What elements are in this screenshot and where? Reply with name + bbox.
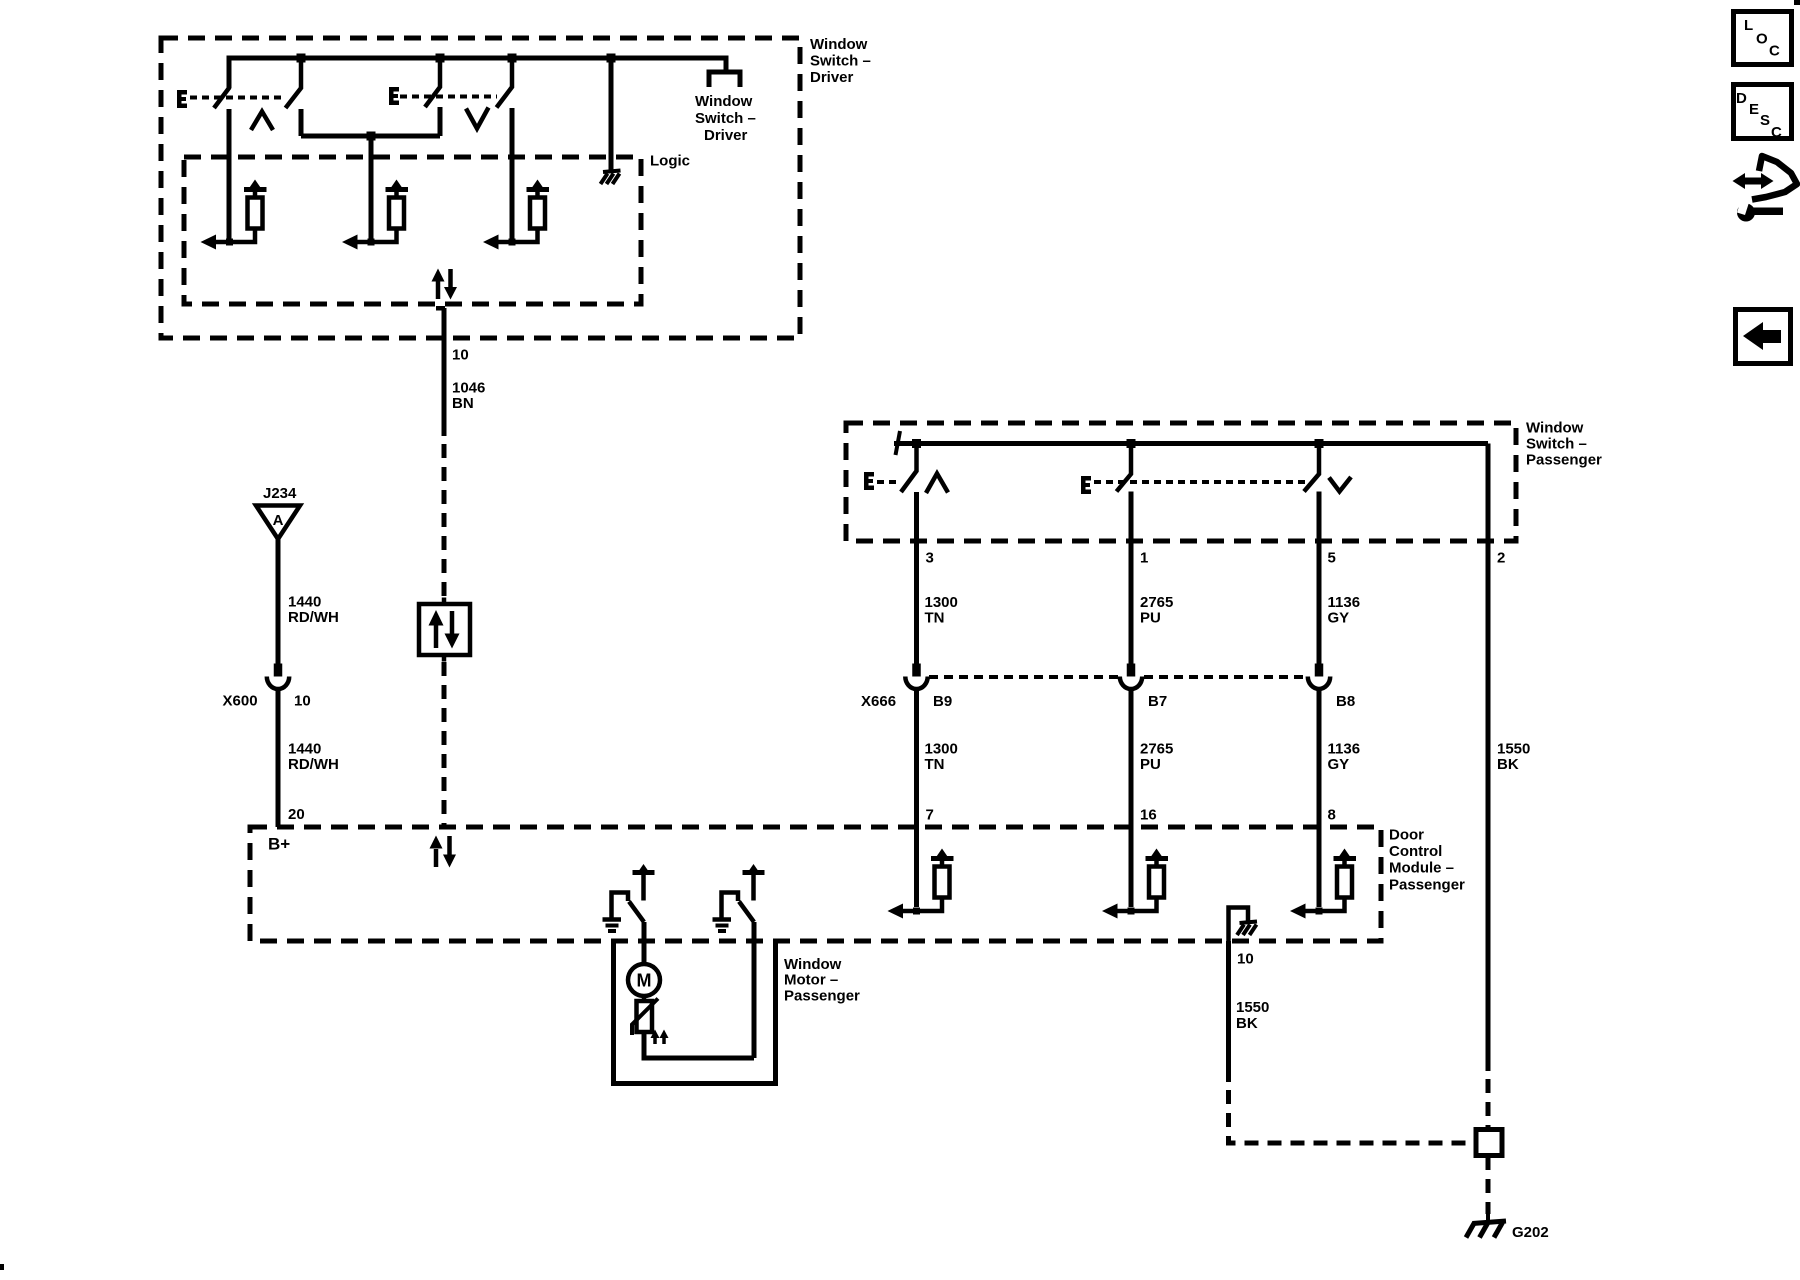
symbol: DCM cell 3 supply bar — [1334, 856, 1357, 861]
symbol: logic cell 3 arrowhead — [483, 235, 499, 250]
wire: E dashed line (driver up switch) — [190, 96, 286, 100]
component box: Window Switch - Driver — [161, 38, 800, 338]
symbol: DCM cell 1 supply bar — [931, 856, 954, 861]
icon: wiring pointer arrow — [1733, 173, 1774, 189]
node: DCM cell 3 junction — [1316, 908, 1323, 915]
wire: motor drive B contact stub — [751, 873, 756, 901]
svg-text:2765: 2765 — [1140, 741, 1173, 758]
svg-text:M: M — [637, 971, 652, 991]
symbol: logic cell 2 supply arrow — [391, 180, 402, 188]
svg-text:1550: 1550 — [1236, 999, 1269, 1016]
wire: DCM cell 1 resistor top stub — [940, 859, 945, 867]
svg-text:B7: B7 — [1148, 693, 1167, 710]
wire: circuit 1300 lower — [914, 690, 919, 908]
wire: motor drive B ground elbow — [722, 893, 739, 919]
switch: driver window down, left blade — [425, 58, 440, 107]
wire: DCM cell 3 resistor elbow — [1319, 897, 1345, 911]
label: Door Control Module - Passenger — [1389, 827, 1465, 894]
wire: DCM cell 2 arrow — [1117, 909, 1132, 914]
wire: driver supply bus — [229, 58, 726, 88]
wire: motor drive A contact stub — [641, 873, 646, 901]
svg-text:S: S — [1760, 112, 1770, 129]
icon: wiring scribble outline — [1752, 156, 1797, 200]
svg-text:1440: 1440 — [288, 741, 321, 758]
wire: logic cell 3 resistor top stub — [535, 190, 540, 198]
svg-text:BK: BK — [1497, 756, 1519, 773]
wire: DCM ground elbow — [1229, 908, 1249, 942]
symbol: DCM cell 2 supply arrow — [1151, 849, 1162, 857]
wire: down switch left terminal drop — [438, 107, 443, 136]
node: passenger bus junction 1 — [912, 439, 921, 448]
svg-text:Switch –: Switch – — [1526, 436, 1587, 453]
label: circuit 1440 RD/WH lower — [288, 741, 339, 774]
wire: circuit 1440 upper — [276, 539, 281, 664]
symbol: DCM cell 2 supply bar — [1146, 856, 1169, 861]
symbol: DCM cell 1 arrowhead — [888, 904, 904, 919]
wire: motor drive A ground elbow — [612, 893, 629, 919]
symbol: up chevron (driver) — [251, 112, 273, 131]
label: E (driver up switch) — [177, 90, 187, 108]
switch: passenger bus end blade — [896, 431, 901, 455]
svg-text:Door: Door — [1389, 827, 1424, 844]
svg-text:Passenger: Passenger — [1389, 877, 1465, 894]
svg-text:X666: X666 — [861, 693, 896, 710]
wire: DCM cell 2 resistor top stub — [1154, 859, 1159, 867]
svg-text:A: A — [273, 512, 284, 529]
symbol: logic cell 1 supply arrow — [250, 180, 261, 188]
component box: Window Motor - Passenger housing — [614, 941, 776, 1084]
connector: X666 pin B8 — [1315, 664, 1324, 677]
svg-text:10: 10 — [294, 693, 311, 710]
wire: logic cell 1 resistor elbow — [230, 228, 256, 242]
icon: wrench — [1737, 200, 1783, 222]
symbol: in-line up/down arrow box — [442, 598, 447, 605]
thermistor: motor PTC — [637, 1001, 653, 1032]
svg-text:1136: 1136 — [1328, 741, 1361, 758]
svg-text:Switch –: Switch – — [810, 53, 871, 70]
svg-text:Window: Window — [695, 93, 753, 110]
ground: driver switch internal ground — [601, 171, 621, 185]
component box: Door Control Module - Passenger — [250, 827, 1381, 941]
svg-text:Window: Window — [784, 956, 842, 973]
switch: driver window down, right blade — [497, 58, 513, 108]
wire: logic cell 2 arrow — [357, 240, 372, 245]
switch: driver window up, right blade — [286, 58, 302, 108]
wire: X666 dashed link right — [1144, 675, 1306, 679]
svg-text:1440: 1440 — [288, 594, 321, 611]
svg-text:1550: 1550 — [1497, 741, 1530, 758]
node: bus junction 1 — [297, 54, 306, 63]
wire: passenger pin 1 output — [1129, 492, 1134, 664]
symbol: logic output up arrow — [436, 281, 441, 299]
node: logic cell 3 junction — [509, 239, 516, 246]
label: E (passenger down switch) — [1081, 476, 1091, 494]
svg-text:10: 10 — [452, 347, 469, 364]
switch: motor drive A blade — [629, 902, 644, 923]
symbol: down chevron (passenger) — [1329, 477, 1351, 492]
wire: logic cell 3 arrow — [498, 240, 513, 245]
svg-text:8: 8 — [1328, 807, 1336, 824]
wire: DCM cell 3 resistor top stub — [1342, 859, 1347, 867]
label: Window Switch - Driver (outside right) — [810, 36, 871, 86]
svg-text:PU: PU — [1140, 610, 1161, 627]
wire: DCM cell 1 resistor elbow — [917, 897, 943, 911]
connector symbol: window switch driver bracket — [709, 72, 740, 87]
label: circuit 1136 GY lower — [1328, 741, 1361, 774]
wire: DCM cell 3 arrow — [1305, 909, 1320, 914]
node: bus junction 3 — [508, 54, 517, 63]
wire: down switch output to logic — [510, 108, 515, 242]
mark: top right corner — [1794, 0, 1800, 5]
label: circuit 1300 TN lower — [925, 741, 958, 774]
wire: E dashed line (driver down switch) — [400, 95, 497, 99]
symbol: logic output down arrow — [448, 269, 453, 287]
svg-text:16: 16 — [1140, 807, 1157, 824]
node: tie bar junction — [367, 132, 376, 141]
wire: bus ground drop — [609, 58, 614, 170]
svg-text:Logic: Logic — [650, 153, 690, 170]
symbol: logic cell 1 supply bar — [244, 187, 267, 192]
wire: up switch right terminal drop — [299, 109, 304, 136]
label: Window Motor - Passenger — [784, 956, 860, 1005]
svg-text:Control: Control — [1389, 843, 1442, 860]
symbol: logic cell 2 arrowhead — [342, 235, 358, 250]
connector: X600 pin 10 — [274, 664, 283, 677]
label: circuit 2765 PU upper — [1140, 594, 1173, 627]
switch: motor drive B blade — [739, 902, 754, 923]
label: circuit 2765 PU lower — [1140, 741, 1173, 774]
motor: window motor M — [628, 964, 660, 996]
svg-text:5: 5 — [1328, 550, 1336, 567]
svg-text:G202: G202 — [1512, 1224, 1549, 1241]
icon: back button — [1736, 310, 1791, 364]
symbol: logic cell 3 supply arrow — [532, 180, 543, 188]
wire: circuit 2765 lower — [1129, 690, 1134, 908]
svg-text:GY: GY — [1328, 610, 1350, 627]
wire: splice to ground dashed — [1486, 1156, 1491, 1214]
svg-text:Window: Window — [1526, 420, 1584, 437]
svg-text:D: D — [1736, 90, 1747, 107]
wire: DCM cell 1 arrow — [902, 909, 917, 914]
resistor: logic cell 3 — [530, 198, 545, 229]
node: bus junction 4 (ground tap) — [607, 54, 616, 63]
ground: motor drive A — [603, 920, 622, 932]
wire: circuit 1046 dashed upper — [442, 444, 447, 598]
svg-text:B9: B9 — [933, 693, 952, 710]
svg-text:Driver: Driver — [704, 127, 748, 144]
wire: passenger pin 5 output — [1317, 492, 1322, 664]
symbol: motor drive A supply bar — [633, 870, 655, 875]
svg-text:1300: 1300 — [925, 594, 958, 611]
wire: X666 dashed link left — [929, 675, 1118, 679]
wire: logic cell 1 resistor top stub — [253, 190, 258, 198]
svg-text:20: 20 — [288, 806, 305, 823]
node: logic cell 1 junction — [226, 239, 233, 246]
resistor: DCM cell 2 — [1149, 867, 1164, 898]
wire: logic cell 2 resistor top stub — [394, 190, 399, 198]
svg-text:L: L — [1744, 17, 1753, 34]
symbol: logic cell 1 arrowhead — [201, 235, 217, 250]
component box: Logic (inside driver switch) — [184, 157, 641, 304]
symbol: DCM cell 3 arrowhead — [1290, 904, 1306, 919]
icon: LOC button — [1734, 12, 1792, 65]
wire: motor loop bottom — [644, 1032, 754, 1058]
node: logic cell 2 junction — [368, 239, 375, 246]
resistor: DCM cell 1 — [935, 867, 950, 898]
wire: DCM cell 2 resistor elbow — [1131, 897, 1157, 911]
wire: circuit 1440 lower — [276, 690, 281, 827]
svg-text:B8: B8 — [1336, 693, 1355, 710]
wire: E dashed line (passenger down switches) — [1094, 480, 1305, 484]
switch: passenger up blade — [901, 444, 917, 493]
wire: motor feed B — [752, 922, 757, 1058]
label: E (passenger up switch) — [864, 472, 874, 490]
svg-text:X600: X600 — [223, 693, 258, 710]
svg-text:1046: 1046 — [452, 380, 485, 397]
symbol: up chevron (passenger) — [926, 474, 948, 494]
svg-text:1300: 1300 — [925, 741, 958, 758]
label: Window Switch - Passenger (outside right) — [1526, 420, 1602, 469]
svg-text:1: 1 — [1140, 550, 1148, 567]
svg-text:TN: TN — [925, 756, 945, 773]
svg-text:O: O — [1756, 31, 1768, 48]
svg-text:BN: BN — [452, 395, 474, 412]
node: DCM cell 1 junction — [913, 908, 920, 915]
wire: motor feed A — [642, 922, 647, 965]
label: circuit 1046 BN — [452, 380, 485, 413]
wire: logic cell 1 arrow — [215, 240, 230, 245]
svg-text:B+: B+ — [268, 835, 290, 854]
node: bus junction 2 — [436, 54, 445, 63]
wire: tie bar drop to logic — [369, 136, 374, 242]
mark: bottom left corner — [0, 1264, 4, 1270]
svg-text:2765: 2765 — [1140, 594, 1173, 611]
svg-text:PU: PU — [1140, 756, 1161, 773]
wire: circuit 1046 solid segment — [442, 308, 447, 436]
switch: passenger center blade — [1117, 444, 1132, 492]
splice: S-connection square — [1476, 1130, 1502, 1156]
svg-text:Module –: Module – — [1389, 860, 1454, 877]
wire: circuit 1550 right dashed — [1486, 1079, 1491, 1128]
wire: circuit 1550 left solid — [1226, 941, 1231, 1082]
svg-text:C: C — [1771, 124, 1782, 141]
svg-text:Driver: Driver — [810, 69, 854, 86]
svg-text:C: C — [1769, 43, 1780, 60]
label: circuit 1550 BK right — [1497, 741, 1530, 774]
wire: circuit 1046 dashed lower — [442, 662, 447, 827]
wire: E dashed line (passenger up switch) — [877, 480, 899, 484]
resistor: logic cell 2 — [389, 198, 404, 229]
label: E (driver down switch) — [389, 87, 399, 105]
symbol: down chevron (driver) — [466, 108, 489, 129]
node: passenger bus junction 3 — [1315, 439, 1324, 448]
label: circuit 1136 GY upper — [1328, 594, 1361, 627]
symbol: logic cell 2 supply bar — [386, 187, 409, 192]
symbol: PTC double up arrows — [651, 1030, 669, 1045]
switch: driver window up, left blade — [214, 58, 229, 108]
component box: Window Switch - Passenger — [846, 423, 1516, 541]
ground: G202 — [1466, 1214, 1506, 1238]
label: circuit 1440 RD/WH upper — [288, 594, 339, 627]
connector: X666 pin B7 — [1127, 664, 1136, 677]
ground: motor drive B — [713, 920, 732, 932]
svg-text:J234: J234 — [263, 485, 297, 502]
switch: passenger down blade — [1304, 444, 1319, 492]
svg-text:TN: TN — [925, 610, 945, 627]
svg-text:Motor –: Motor – — [784, 972, 838, 989]
svg-text:BK: BK — [1236, 1015, 1258, 1032]
node: DCM cell 2 junction — [1128, 908, 1135, 915]
wire: circuit 1136 lower — [1317, 690, 1322, 908]
svg-text:Passenger: Passenger — [784, 988, 860, 1005]
svg-text:E: E — [1749, 101, 1759, 118]
svg-text:RD/WH: RD/WH — [288, 756, 339, 773]
connector: X666 pin B9 — [912, 664, 921, 677]
svg-text:Passenger: Passenger — [1526, 452, 1602, 469]
wire: motor to thermistor stub — [642, 996, 647, 1002]
resistor: DCM cell 3 — [1337, 867, 1352, 898]
symbol: PTC strike line — [632, 999, 658, 1036]
label: circuit 1300 TN upper — [925, 594, 958, 627]
symbol: DCM input down arrow — [447, 836, 452, 855]
wire: up switch output to logic — [227, 109, 232, 242]
symbol: DCM cell 3 supply arrow — [1339, 849, 1350, 857]
wire: passenger supply bus — [894, 441, 1488, 446]
wire: logic cell 3 resistor elbow — [512, 228, 538, 242]
label: circuit 1550 BK left — [1236, 999, 1269, 1032]
symbol: DCM cell 2 arrowhead — [1102, 904, 1118, 919]
fuse: J234 triangle — [256, 506, 300, 540]
wire: passenger pin 3 output — [914, 492, 919, 664]
symbol: logic cell 3 supply bar — [527, 187, 550, 192]
wire: logic cell 2 resistor elbow — [371, 228, 397, 242]
svg-text:1136: 1136 — [1328, 594, 1361, 611]
wire: circuit 1550 right solid — [1486, 444, 1491, 1072]
label: Window Switch - Driver (at bracket) — [695, 93, 756, 144]
resistor: logic cell 1 — [248, 198, 263, 229]
svg-text:Window: Window — [810, 36, 868, 53]
node: passenger bus junction 2 — [1127, 439, 1136, 448]
wire: center tie bar — [301, 134, 440, 139]
svg-text:7: 7 — [926, 807, 934, 824]
symbol: DCM input up arrow — [434, 849, 439, 867]
svg-text:RD/WH: RD/WH — [288, 609, 339, 626]
svg-text:10: 10 — [1237, 951, 1254, 968]
symbol: DCM cell 1 supply arrow — [937, 849, 948, 857]
svg-text:2: 2 — [1497, 550, 1505, 567]
icon: DESC button — [1734, 85, 1792, 142]
svg-text:GY: GY — [1328, 756, 1350, 773]
wire: logic output jog — [436, 306, 445, 311]
ground: DCM internal ground — [1237, 922, 1257, 936]
svg-text:3: 3 — [926, 550, 934, 567]
wire: circuit 1550 left dashed — [1229, 1090, 1475, 1143]
svg-text:Switch –: Switch – — [695, 110, 756, 127]
symbol: motor drive B supply bar — [743, 870, 765, 875]
